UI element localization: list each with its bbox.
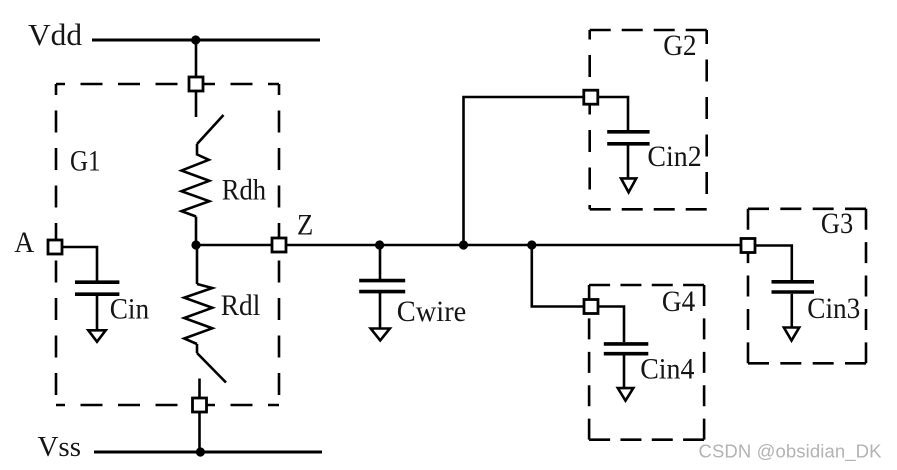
svg-text:Cin2: Cin2 <box>647 140 701 173</box>
svg-text:Cin4: Cin4 <box>640 352 694 385</box>
svg-text:G1: G1 <box>70 145 101 178</box>
svg-text:G2: G2 <box>663 29 696 62</box>
svg-text:Cin3: Cin3 <box>807 292 860 325</box>
svg-text:Vss: Vss <box>38 431 82 463</box>
svg-text:Rdl: Rdl <box>221 289 260 322</box>
svg-text:CSDN @obsidian_DK: CSDN @obsidian_DK <box>699 441 883 463</box>
svg-text:Cwire: Cwire <box>397 295 467 328</box>
svg-text:G3: G3 <box>821 207 853 240</box>
svg-text:G4: G4 <box>662 285 695 318</box>
svg-text:Rdh: Rdh <box>222 173 266 206</box>
svg-text:Cin: Cin <box>110 293 149 326</box>
svg-text:Vdd: Vdd <box>28 18 82 52</box>
svg-text:A: A <box>14 226 34 259</box>
svg-text:Z: Z <box>297 209 313 242</box>
